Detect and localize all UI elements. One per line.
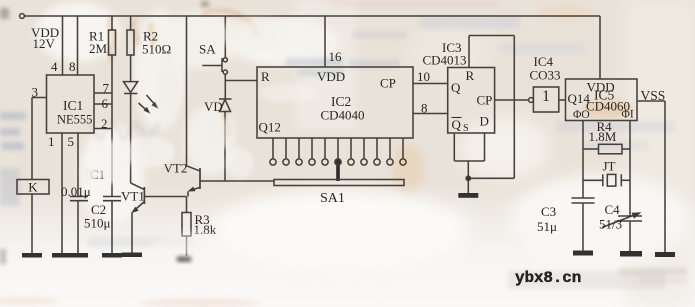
svg-text:NE555: NE555 bbox=[57, 113, 92, 127]
svg-text:6: 6 bbox=[102, 96, 109, 111]
svg-text:CP: CP bbox=[380, 76, 396, 91]
svg-text:8: 8 bbox=[421, 101, 428, 116]
svg-text:16: 16 bbox=[329, 49, 343, 64]
svg-text:ΦO: ΦO bbox=[573, 109, 590, 121]
svg-text:CP: CP bbox=[477, 93, 493, 108]
svg-text:4: 4 bbox=[51, 59, 58, 74]
svg-text:VSS: VSS bbox=[641, 88, 666, 103]
svg-text:C3: C3 bbox=[541, 204, 556, 219]
svg-text:ΦI: ΦI bbox=[622, 109, 634, 121]
svg-text:VDD: VDD bbox=[317, 69, 345, 84]
svg-text:C4: C4 bbox=[605, 202, 621, 217]
svg-text:JT: JT bbox=[603, 159, 616, 174]
svg-text:5: 5 bbox=[68, 134, 75, 149]
svg-text:0.01μ: 0.01μ bbox=[61, 184, 91, 199]
svg-text:12V: 12V bbox=[33, 36, 56, 51]
svg-text:CD4040: CD4040 bbox=[321, 108, 365, 123]
svg-text:SA: SA bbox=[199, 42, 216, 57]
svg-text:R: R bbox=[261, 69, 270, 84]
svg-text:3: 3 bbox=[32, 85, 39, 100]
svg-text:Q: Q bbox=[452, 117, 462, 132]
svg-text:8: 8 bbox=[69, 59, 76, 74]
svg-text:D: D bbox=[480, 114, 489, 129]
svg-text:1.8M: 1.8M bbox=[589, 129, 617, 144]
svg-text:510Ω: 510Ω bbox=[142, 42, 171, 57]
svg-text:S: S bbox=[463, 123, 469, 134]
svg-text:51μ: 51μ bbox=[537, 219, 557, 234]
svg-text:Q12: Q12 bbox=[259, 120, 281, 135]
svg-text:IC1: IC1 bbox=[63, 98, 83, 113]
svg-text:2M: 2M bbox=[89, 41, 108, 56]
svg-text:1: 1 bbox=[542, 88, 550, 105]
svg-text:510μ: 510μ bbox=[84, 216, 111, 231]
svg-text:SA1: SA1 bbox=[320, 191, 345, 206]
svg-text:ybx8.cn: ybx8.cn bbox=[515, 269, 581, 287]
svg-text:Q: Q bbox=[451, 80, 461, 95]
svg-text:10: 10 bbox=[417, 69, 430, 84]
svg-text:CD4013: CD4013 bbox=[423, 53, 467, 68]
svg-text:1: 1 bbox=[48, 134, 55, 149]
svg-text:51/3: 51/3 bbox=[599, 217, 622, 232]
svg-text:VT1: VT1 bbox=[121, 189, 145, 204]
svg-text:7: 7 bbox=[103, 81, 110, 96]
svg-text:VD: VD bbox=[204, 99, 223, 114]
svg-text:2: 2 bbox=[101, 116, 108, 131]
svg-text:CO33: CO33 bbox=[530, 68, 561, 83]
svg-text:R: R bbox=[466, 68, 475, 83]
svg-text:K: K bbox=[28, 180, 38, 195]
